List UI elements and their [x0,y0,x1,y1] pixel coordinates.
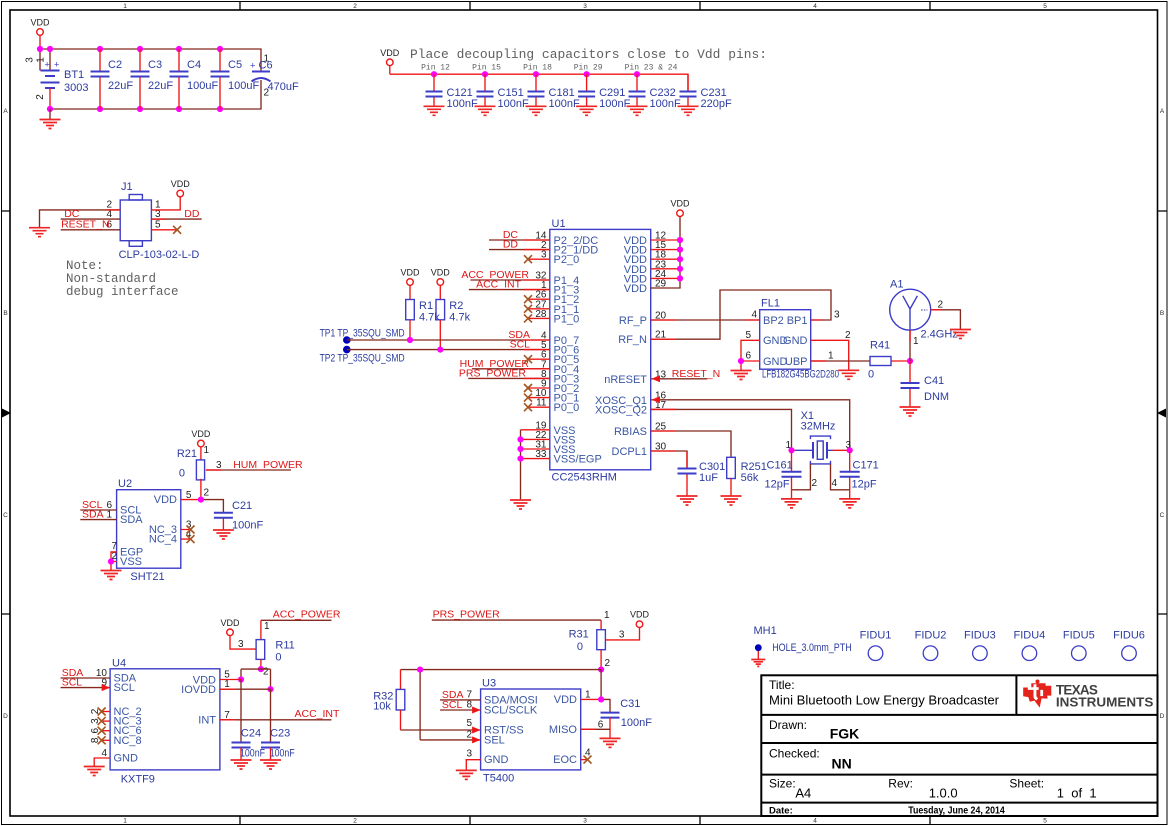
svg-text:1: 1 [264,54,270,65]
resistor R251 56k [727,457,767,495]
capacitor C6 470uF polarized [250,54,299,99]
wire U3 MISO [581,728,610,730]
svg-text:VSS: VSS [120,556,142,568]
svg-text:4: 4 [751,310,757,321]
svg-text:GND: GND [114,753,139,765]
svg-text:BT1: BT1 [64,69,84,81]
svg-text:100nF: 100nF [621,717,652,729]
svg-text:SDA: SDA [82,509,104,521]
svg-text:RF_N: RF_N [618,334,647,346]
svg-text:100nF: 100nF [232,520,263,532]
svg-text:HUM_POWER: HUM_POWER [233,459,303,471]
svg-text:nRESET: nRESET [604,374,647,386]
svg-text:SCL: SCL [62,677,83,689]
capacitor C161 12pF [765,450,802,498]
wire net HUM_POWER (R21 pin3) [206,459,303,471]
svg-text:XOSC_Q2: XOSC_Q2 [595,404,647,416]
capacitor C4 100uF [170,49,219,109]
svg-text:100nF: 100nF [599,98,630,110]
svg-text:1 of 1: 1 of 1 [1057,786,1097,801]
ground (J1) [29,228,50,237]
svg-text:2: 2 [466,730,472,741]
svg-text:U4: U4 [112,657,126,669]
wire FL1 pin1 to R41 [811,360,870,362]
svg-text:C171: C171 [853,460,879,472]
fiducial FIDU6 [1113,630,1145,661]
antenna A1 2.4GHz [890,279,958,348]
svg-text:100uF: 100uF [228,80,259,92]
svg-text:FIDU1: FIDU1 [860,630,892,642]
wire net ACC_POWER (R11 pin1) [261,609,341,633]
wire net SCL (U2 pin6) [80,499,116,511]
svg-text:3: 3 [238,639,244,650]
svg-text:100nF: 100nF [549,98,580,110]
svg-text:VDD: VDD [154,494,177,506]
svg-text:U1: U1 [552,218,566,230]
svg-text:Drawn:: Drawn: [769,718,807,732]
capacitor C301 1uF [678,451,726,496]
svg-text:SDA: SDA [120,514,143,526]
svg-text:Date:: Date: [769,806,793,817]
capacitor C2 22uF [91,49,134,109]
ground (U2) [101,571,122,580]
ground (R251) [721,496,742,505]
svg-text:1: 1 [36,57,47,63]
svg-text:HOLE_3.0mm_PTH: HOLE_3.0mm_PTH [772,642,852,654]
svg-text:22uF: 22uF [148,80,173,92]
svg-text:INT: INT [198,715,216,727]
ground (C171) [839,499,860,508]
svg-text:1: 1 [123,3,127,10]
svg-text:1uF: 1uF [699,472,718,484]
svg-text:P2_0: P2_0 [554,254,580,266]
U1 left pin numbers [535,231,547,461]
node RF junction [907,358,913,364]
svg-text:R1: R1 [419,300,433,312]
svg-text:SHT21: SHT21 [130,571,164,583]
U1 right pin numbers [655,231,667,453]
svg-text:BP1: BP1 [787,315,808,327]
svg-text:0: 0 [179,468,185,480]
wire net SDA (TP1 to U1 pin4) [347,329,550,343]
svg-text:PRS_POWER: PRS_POWER [459,367,527,379]
svg-text:1: 1 [204,445,210,456]
svg-text:22uF: 22uF [108,80,133,92]
wire U2 EGP/VSS to ground [108,552,117,570]
svg-text:DCPL1: DCPL1 [612,446,647,458]
svg-text:2: 2 [90,708,101,714]
ground (A1) [950,330,971,339]
resistor R2 4.7k [436,300,471,350]
svg-text:DD: DD [184,208,200,220]
power symbol VDD (R1) [400,268,420,300]
svg-text:1: 1 [913,336,919,347]
capacitor C24 100nF [232,680,266,760]
svg-text:5: 5 [155,219,161,230]
svg-text:DNM: DNM [924,391,949,403]
svg-text:+: + [250,61,256,72]
svg-text:100uF: 100uF [187,80,218,92]
power symbol VDD (U1) [670,199,690,217]
wire A1 pin1 to RF node [909,330,911,361]
wire net PRS_POWER (U1 pin8) [459,367,550,379]
svg-text:1.0.0: 1.0.0 [929,786,958,801]
capacitor C23 100nF [261,689,295,759]
node XOSC_Q2/X1 pin1 [788,447,794,453]
wire net SCL (U4 pin9) [61,677,111,692]
wire R11 pin2 distribution [238,666,274,692]
svg-text:Title:: Title: [769,678,795,692]
fiducial FIDU2 [915,630,947,661]
svg-text:4.7k: 4.7k [419,312,440,324]
wire bottom rail (GND net) [47,80,261,112]
svg-text:VDD: VDD [670,199,690,209]
ground (U3) [456,770,477,779]
svg-text:VDD: VDD [220,618,240,628]
power symbol VDD (R21) [191,429,211,460]
svg-text:C: C [3,512,8,519]
capacitor C151 100nF [475,74,529,115]
wire FL1 pin5/pin6 to ground [738,340,760,370]
svg-text:A1: A1 [890,279,903,291]
svg-text:FIDU5: FIDU5 [1063,630,1095,642]
ground (C24) [231,760,252,769]
svg-text:3: 3 [619,630,625,641]
svg-text:NC_4: NC_4 [149,534,177,546]
svg-text:KXTF9: KXTF9 [121,774,155,786]
svg-text:MISO: MISO [549,724,578,736]
capacitor C31 100nF [601,698,653,738]
wire U2 VDD to C21 [181,497,224,513]
svg-text:3: 3 [834,310,840,321]
capacitor C121 100nF [424,74,478,115]
battery BT1 3003 [25,57,89,109]
svg-text:UBP: UBP [785,356,808,368]
svg-text:8: 8 [466,700,472,711]
svg-text:CLP-103-02-L-D: CLP-103-02-L-D [119,249,200,261]
U1 unused left pins (no-connect) [524,255,550,411]
svg-text:A: A [1160,108,1165,115]
svg-text:ACC_POWER: ACC_POWER [273,609,341,621]
wire net XOSC_Q1 (U1 pin16 to X1 pin3) [652,396,850,450]
svg-text:100nF: 100nF [240,748,265,760]
filter FL1 LFB182G45BG2D280 [745,298,851,381]
wire U3 VDD to C31 [581,696,610,712]
IC U1 CC2543RHM [550,218,651,484]
svg-text:C5: C5 [228,59,242,71]
capacitor C171 12pF [840,450,879,498]
svg-text:CC2543RHM: CC2543RHM [552,472,617,484]
test point TP1 [320,328,405,344]
ground (battery) [40,109,61,129]
fiducial FIDU3 [964,630,996,661]
wire decoupling VDD rail [390,71,688,91]
svg-text:4.7k: 4.7k [449,312,470,324]
svg-text:FGK: FGK [830,726,860,742]
wire DCPL1 (U1 pin30 to C301) [651,451,687,469]
svg-text:FIDU4: FIDU4 [1014,630,1046,642]
svg-text:Non-standard: Non-standard [66,272,156,286]
svg-text:R31: R31 [569,629,589,641]
wire RBIAS (U1 pin25 to R251) [651,431,731,457]
wire U1 VDD pins bus [651,217,683,289]
svg-text:Place decoupling capacitors cl: Place decoupling capacitors close to Vdd… [410,47,767,62]
svg-text:U2: U2 [118,478,132,490]
ground (C41) [900,407,921,416]
svg-text:RESET_N: RESET_N [672,368,720,380]
capacitor C232 100nF [627,74,681,115]
svg-text:1: 1 [123,818,127,825]
svg-text:C41: C41 [924,375,944,387]
capacitor C231 220pF [678,74,732,115]
svg-text:VDD: VDD [554,694,577,706]
ground (C161) [781,499,802,508]
svg-text:100nF: 100nF [270,748,295,760]
svg-text:SEL: SEL [484,734,505,746]
svg-text:P1_0: P1_0 [554,313,580,325]
wire VSS bus to ground [517,430,549,500]
wire U3 SEL [420,736,481,743]
ground (FL1 pin2) [838,370,859,379]
wire net DC (U1 pin14) [489,229,550,241]
svg-text:2: 2 [35,94,46,100]
svg-text:12pF: 12pF [852,479,877,491]
resistor R41 0 [868,340,910,381]
svg-text:0: 0 [577,641,583,653]
svg-text:debug interface: debug interface [66,285,179,299]
svg-text:Pin 23 & 24: Pin 23 & 24 [625,64,678,73]
svg-text:10k: 10k [373,701,391,713]
power symbol VDD (R2) [431,268,451,300]
wire R31 pin2 net [401,666,605,740]
resistor R11 0 [256,620,295,677]
svg-text:FIDU3: FIDU3 [964,630,996,642]
fiducial FIDU5 [1063,630,1095,661]
svg-text:B: B [3,310,7,317]
svg-text:3: 3 [583,818,587,825]
wire U3 RST/SS [401,727,481,734]
svg-text:2: 2 [845,330,851,341]
svg-text:C21: C21 [232,500,252,512]
node XOSC_Q1/X1 pin3 [847,447,853,453]
svg-text:FL1: FL1 [761,298,780,310]
wire U4 IOVDD pin1 [220,688,271,690]
svg-text:C4: C4 [187,59,201,71]
ground (C31/MISO) [600,738,621,747]
svg-text:SCL: SCL [442,699,463,711]
resistor R32 10k [373,670,405,730]
wire J1 pin2 to ground [40,210,121,227]
svg-text:220pF: 220pF [701,98,732,110]
svg-text:NN: NN [832,756,852,772]
note: non-standard debug interface [66,259,179,299]
svg-text:U3: U3 [482,678,496,690]
svg-text:INSTRUMENTS: INSTRUMENTS [1056,696,1154,710]
svg-text:R2: R2 [449,300,463,312]
capacitor C5 100uF [211,49,260,109]
svg-text:FIDU2: FIDU2 [915,630,947,642]
ground (FL1 left) [731,371,752,380]
svg-text:P0_0: P0_0 [554,402,580,414]
svg-text:1: 1 [604,610,610,621]
svg-text:D: D [1160,713,1165,720]
svg-text:3: 3 [25,57,36,63]
svg-text:GND: GND [763,356,788,368]
svg-text:R11: R11 [275,640,294,652]
svg-text:470uF: 470uF [268,81,299,93]
IC U3 T5400 [466,678,603,785]
wire net XOSC_Q2 (U1 pin17 to X1 pin1) [651,409,792,450]
svg-text:C31: C31 [620,698,640,710]
wire net PRS_POWER (R31 pin1) [432,609,610,622]
svg-text:A4: A4 [795,786,811,801]
capacitor C181 100nF [526,74,580,115]
svg-text:EOC: EOC [553,754,577,766]
svg-text:2: 2 [204,488,210,499]
svg-text:MH1: MH1 [754,625,777,637]
svg-text:RF_P: RF_P [619,315,647,327]
svg-text:TP1 TP_35SQU_SMD: TP1 TP_35SQU_SMD [320,328,405,340]
svg-text:2: 2 [264,88,270,99]
ground (C301) [677,496,698,505]
svg-text:6: 6 [90,727,101,733]
svg-text:D: D [3,713,8,720]
svg-text:100nF: 100nF [447,98,478,110]
svg-text:Mini Bluetooth Low Energy Broa: Mini Bluetooth Low Energy Broadcaster [769,693,1000,708]
ground (C23) [260,760,281,769]
svg-text:2: 2 [938,300,944,311]
svg-text:3: 3 [583,3,587,10]
svg-text:IOVDD: IOVDD [181,684,216,696]
wire U4 VDD pin5 [220,679,241,681]
wire net ACC_POWER (U1 pin32) [461,269,549,281]
mounting hole MH1 HOLE_3.0mm_PTH [754,625,852,659]
svg-text:GND: GND [484,754,509,766]
wire net RESET_N (J1 pin6) [61,219,120,231]
U2 NC pins no-connect [181,526,195,544]
svg-text:C: C [1160,512,1165,519]
svg-text:VDD: VDD [400,268,420,278]
svg-text:2: 2 [263,667,269,678]
svg-text:12pF: 12pF [765,479,790,491]
svg-text:2: 2 [812,478,818,489]
wire net DD (U1 pin2) [489,239,550,251]
wire VDD top rail [37,46,261,72]
svg-text:8: 8 [90,737,101,743]
svg-text:ACC_INT: ACC_INT [295,708,341,720]
wire net HUM_POWER (U1 pin7) [460,358,550,370]
svg-text:Checked:: Checked: [769,747,820,761]
wire net RF_P (U1 pin20 to FL1 pin4) [651,319,760,321]
IC U4 KXTF9 [96,657,230,785]
wire net DC (J1 pin4) [61,208,120,220]
svg-text:VDD: VDD [431,268,451,278]
svg-text:Tuesday, June 24, 2014: Tuesday, June 24, 2014 [908,805,1005,817]
wire U3 EOC no-connect [581,756,592,764]
fiducial FIDU1 [860,630,892,661]
wire net SCL (U3 pin8) [440,699,481,714]
svg-text:C161: C161 [767,460,793,472]
svg-text:Pin 29: Pin 29 [574,64,603,73]
capacitor C291 100nF [576,74,630,115]
svg-text:3003: 3003 [64,82,88,94]
power symbol VDD (decoupling rail) [380,48,400,74]
svg-text:R41: R41 [870,340,890,352]
ground (C21) [213,530,234,539]
wire net ACC_INT (U4 pin7) [220,708,340,720]
svg-text:C3: C3 [148,59,162,71]
U4 NC pins no-connect [90,708,110,745]
svg-text:3: 3 [216,460,222,471]
wire J1 pin5 no-connect [151,226,181,234]
svg-text:C23: C23 [270,728,290,740]
svg-text:T5400: T5400 [483,773,514,785]
svg-text:2: 2 [353,3,357,10]
ground (U1 VSS) [510,500,531,509]
svg-text:A: A [3,108,8,115]
svg-text:TP2 TP_35SQU_SMD: TP2 TP_35SQU_SMD [320,353,405,365]
svg-text:5: 5 [1043,818,1047,825]
svg-text:Note:: Note: [66,259,104,273]
IC U2 SHT21 [106,478,191,583]
svg-text:56k: 56k [741,472,759,484]
svg-text:DD: DD [503,239,519,251]
svg-text:BP2: BP2 [763,315,784,327]
wire net SCL (TP2 to U1 pin5) [347,339,550,353]
power symbol VDD (R31) [606,610,649,641]
svg-text:RESET_N: RESET_N [61,219,109,231]
svg-text:Rev:: Rev: [888,777,913,791]
wire J1 pin1 to VDD [151,197,180,210]
svg-text:B: B [1160,310,1164,317]
fiducial FIDU4 [1014,630,1046,661]
svg-text:Pin 15: Pin 15 [472,64,501,73]
svg-text:Pin 12: Pin 12 [421,64,450,73]
svg-text:4: 4 [813,818,817,825]
resistor R21 0 [177,448,210,500]
svg-text:1: 1 [264,621,270,632]
svg-text:C24: C24 [241,728,261,740]
resistor R31 0 [569,620,611,669]
svg-text:0: 0 [868,369,874,381]
svg-text:Pin 18: Pin 18 [523,64,552,73]
svg-text:J1: J1 [121,181,133,193]
svg-text:VDD: VDD [191,429,211,439]
power symbol VDD (J1) [171,179,191,197]
svg-text:5: 5 [466,718,472,729]
wire net ACC_INT (U1 pin1) [469,279,550,291]
svg-text:GND: GND [783,335,808,347]
svg-text:6: 6 [745,351,751,362]
title block [761,675,1157,816]
svg-text:RBIAS: RBIAS [614,426,647,438]
svg-text:FIDU6: FIDU6 [1113,630,1145,642]
test point TP2 [320,346,405,365]
svg-text:5: 5 [745,330,751,341]
svg-text:3: 3 [90,718,101,724]
wire FL1 pin2 to ground [811,340,849,370]
svg-text:ACC_INT: ACC_INT [476,279,522,291]
svg-text:32MHz: 32MHz [801,421,836,433]
svg-text:2: 2 [605,658,611,669]
wire net SDA (U2 pin1) [80,509,116,521]
ground (MH1) [751,660,765,667]
wire net DD (J1 pin3) [151,208,201,220]
svg-text:100nF: 100nF [498,98,529,110]
ground (U4) [84,767,105,776]
svg-text:VDD: VDD [630,610,650,620]
svg-text:R21: R21 [177,448,197,460]
